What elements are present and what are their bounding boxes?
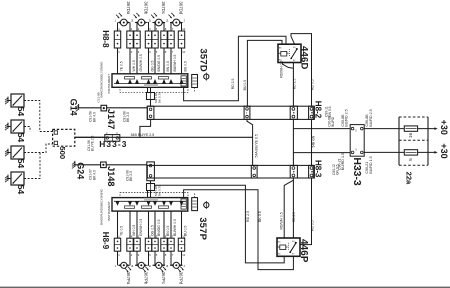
lamp 367Dd — [173, 19, 180, 26]
svg-text:10: 10 — [182, 253, 185, 257]
svg-text:BU/RD 1.5: BU/RD 1.5 — [369, 156, 373, 173]
relay 446D contact — [291, 49, 297, 58]
svg-text:OG 0.5: OG 0.5 — [150, 60, 154, 71]
wire switch 1 to 500 dashed — [24, 101, 53, 132]
svg-text:BAKGRUNDSBELYSNING: BAKGRUNDSBELYSNING — [100, 188, 104, 225]
lamp 367Da — [120, 19, 127, 26]
connector H8-9 pin box 2 — [127, 238, 133, 251]
wire H8-3 end to pin box — [150, 181, 152, 184]
wire 500 to H33-3 — [75, 136, 105, 138]
module 357P body — [112, 198, 188, 212]
svg-text:10: 10 — [182, 234, 185, 238]
connector H8-8 pin box 4 — [145, 31, 151, 48]
link 357D internal — [159, 77, 169, 79]
svg-text:GN/WH 0.5: GN/WH 0.5 — [139, 219, 143, 236]
connector H8-2 pin box 293 — [290, 106, 297, 119]
wire lamp 367Dc right lead — [164, 23, 165, 32]
link 357D internal — [142, 77, 152, 79]
wire J148 to H8-3 — [106, 164, 147, 166]
fuse 5 — [404, 150, 417, 155]
wire lamp 367Pc left lead — [153, 251, 156, 265]
wire RD/WH 0.5 H8-3 to 446P — [284, 180, 293, 238]
wire WH 0.5 from 357P — [129, 211, 131, 238]
connector H8-9 pin box 8 — [178, 238, 184, 251]
wire to H33-3 top — [293, 128, 350, 130]
svg-text:54: 54 — [16, 159, 26, 169]
wire pin box to 357P — [150, 191, 152, 198]
wire RD between bars — [292, 119, 294, 165]
wire RD 0.5 446D pin 30 — [291, 34, 312, 107]
wire BU/WH 0.5 to 357D — [170, 48, 172, 74]
svg-text:BU/WH 0.5: BU/WH 0.5 — [173, 54, 177, 71]
svg-text:54: 54 — [16, 133, 26, 143]
wire lamp 367Pa right lead — [129, 251, 131, 265]
wire lamp 367Da left lead — [117, 23, 119, 32]
switch 54 (4) — [11, 172, 24, 185]
svg-text:RD 2.5: RD 2.5 — [231, 79, 235, 90]
pin arrow 357D — [169, 79, 173, 84]
wire lamp 367Dd left lead — [170, 23, 171, 32]
svg-text:BK 2.5: BK 2.5 — [129, 171, 133, 181]
wire RD 0.5 between bars — [311, 119, 313, 165]
svg-text:BN/OG 0.5: BN/OG 0.5 — [157, 55, 161, 72]
housing 357P dashed — [120, 193, 188, 198]
svg-text:RD 2.5: RD 2.5 — [293, 79, 297, 90]
svg-text:OG 0.5: OG 0.5 — [150, 225, 154, 236]
wire switch 2 to 500 dashed — [24, 127, 30, 132]
fuse box 22a — [399, 116, 428, 118]
lamp 367Pd — [173, 262, 179, 268]
connector H8-3 pin box 293 — [290, 165, 297, 178]
connector H8-2 pin box 247 — [244, 106, 250, 119]
switch 54 (1) — [11, 94, 24, 107]
pin arrow 357P — [153, 201, 157, 206]
svg-text:INSTRUMENT: INSTRUMENT — [107, 74, 111, 94]
lamp 367Pa — [121, 262, 127, 268]
svg-text:RD/WH 0.5: RD/WH 0.5 — [280, 212, 284, 229]
resistor 357P illumination — [192, 198, 198, 211]
svg-text:H8-9: H8-9 — [101, 232, 110, 250]
link 357P internal — [125, 206, 135, 208]
relay 446D coil — [281, 51, 287, 56]
wire lamp 367Dc left lead — [153, 23, 156, 32]
svg-text:RD 0.5: RD 0.5 — [311, 220, 315, 231]
svg-text:WH 0.5: WH 0.5 — [132, 60, 136, 71]
svg-text:BU/RD 2.5: BU/RD 2.5 — [369, 109, 373, 126]
pin arrow 357P — [135, 201, 139, 206]
wire switch 3 to 500 dashed — [24, 144, 53, 153]
pin arrow 357D — [147, 79, 151, 84]
connector H8-3 end box — [147, 162, 155, 181]
wire lamp 367Pd right lead — [182, 251, 183, 265]
svg-text:YE 0.5: YE 0.5 — [119, 61, 123, 71]
svg-text:H8-8: H8-8 — [101, 30, 110, 48]
relay 446P body — [277, 238, 300, 256]
junction J147 — [101, 105, 107, 111]
wire lamp 367Pa left lead — [117, 251, 119, 265]
connector H8-8 pin box 8 — [178, 31, 184, 48]
wire RD 2.5 446D coil feed — [184, 36, 286, 100]
ground G24 — [74, 161, 76, 167]
svg-text:54B GN: 54B GN — [311, 135, 315, 147]
wire H33-3 to fuse 5 — [364, 151, 404, 153]
lamp symbol 357P — [204, 202, 209, 207]
svg-text:367Pa: 367Pa — [126, 272, 131, 285]
connector H8-8 pin box 5 — [152, 31, 158, 48]
wire 357D to pin box — [150, 87, 152, 92]
svg-text:+30: +30 — [439, 120, 449, 135]
svg-text:16: 16 — [408, 133, 414, 139]
svg-text:BU 0.5: BU 0.5 — [183, 61, 187, 71]
connector H8-9 pin box 7 — [168, 238, 174, 251]
connector H8-8 pin box 7 — [168, 31, 174, 48]
wire BU 0.5 to 357D — [181, 48, 183, 74]
ground switch 4 — [7, 175, 9, 181]
svg-text:367Dc: 367Dc — [161, 1, 166, 14]
link 357P internal — [159, 206, 169, 208]
wire G14 to J147 — [79, 107, 101, 109]
wire to H33-3 bottom — [293, 152, 350, 154]
wire H8-2 end to 54A branch — [140, 119, 151, 137]
cell 357P right — [181, 199, 186, 209]
svg-text:22a: 22a — [405, 172, 414, 185]
connector H8-9 pin box 1 — [114, 238, 120, 251]
svg-text:BU/RD 2.5: BU/RD 2.5 — [345, 109, 349, 126]
svg-text:446P: 446P — [298, 239, 309, 263]
svg-text:RD 0.5: RD 0.5 — [292, 212, 296, 222]
svg-text:BU 0.5: BU 0.5 — [243, 80, 247, 90]
wire GN/WH 0.5 from 357P — [136, 211, 138, 238]
wire BN 0.5 from 357P — [163, 211, 165, 238]
svg-text:54A BU/YE 0.5: 54A BU/YE 0.5 — [255, 134, 259, 157]
pin arrow 357P — [147, 201, 151, 206]
svg-text:BN/OG 0.5: BN/OG 0.5 — [157, 219, 161, 236]
connector H8-8 pin box 2 — [127, 31, 133, 48]
wire J147 to H8-2 — [107, 107, 148, 109]
svg-text:BU/RD 1.5: BU/RD 1.5 — [341, 153, 345, 170]
svg-text:367Da: 367Da — [126, 1, 131, 14]
svg-text:357D: 357D — [198, 48, 209, 72]
switch 54 (2) — [11, 120, 24, 133]
svg-text:BK 0.5: BK 0.5 — [258, 211, 262, 222]
wire RD/WH 0.5 from 446D coil — [283, 63, 294, 69]
connector H8-8 pin box 1 — [114, 31, 120, 48]
svg-text:54: 54 — [16, 107, 26, 117]
pin arrow 357P — [169, 201, 173, 206]
cell 357D right — [181, 76, 186, 86]
relay 446D body — [278, 44, 301, 62]
connector H8-9 pin box 5 — [152, 238, 158, 251]
wire RD 0.5 right to 446P — [300, 178, 312, 245]
pin arrow 357D — [128, 79, 132, 84]
pin box below 357D — [147, 93, 155, 100]
wire BU 0.5 from 357P — [181, 211, 183, 238]
svg-text:500: 500 — [58, 146, 67, 159]
pin arrow 357P — [180, 201, 184, 206]
module 357D body — [112, 74, 188, 88]
svg-text:357P: 357P — [197, 217, 208, 240]
svg-text:J148: J148 — [106, 166, 116, 186]
housing 357D dashed — [120, 87, 188, 92]
svg-text:BK 0.75: BK 0.75 — [158, 185, 162, 196]
wire WH 0.5 to 357D — [129, 48, 131, 74]
svg-text:446D: 446D — [298, 46, 309, 70]
resistor 357D illumination — [192, 75, 198, 88]
svg-text:GN/WH 0.5: GN/WH 0.5 — [139, 54, 143, 71]
wire OG 0.5 to 357D — [148, 48, 150, 74]
wire 54A BU/YE between bars — [247, 119, 253, 165]
wire RD 2.5 446D to H8-2 — [292, 63, 294, 107]
ground switch 3 — [7, 149, 9, 155]
pin arrow 357D — [135, 79, 139, 84]
svg-text:10: 10 — [182, 50, 185, 54]
ground switch 1 — [7, 97, 9, 103]
wire lamp 367Pb left lead — [135, 251, 137, 265]
svg-text:367Pd: 367Pd — [179, 272, 184, 285]
pin arrow 357D — [153, 79, 157, 84]
svg-text:GN 0.5: GN 0.5 — [328, 106, 332, 117]
lamp 367Pc — [156, 262, 162, 268]
wire lamp 367Pd left lead — [170, 251, 171, 265]
svg-text:BK 4.0: BK 4.0 — [92, 170, 96, 180]
svg-text:WH 0.5: WH 0.5 — [132, 225, 136, 236]
connector H8-2 end box — [147, 106, 154, 119]
connector H8-3 bar — [147, 165, 313, 178]
wire YE 0.5 to 357D — [117, 48, 119, 74]
svg-text:H33-3: H33-3 — [99, 139, 127, 149]
connector H33-3 inline — [105, 135, 120, 142]
pin arrow 357D — [180, 79, 184, 84]
svg-text:367Pb: 367Pb — [144, 272, 149, 285]
svg-text:RD 0.5: RD 0.5 — [311, 79, 315, 90]
wire lamp 367Pc right lead — [164, 251, 165, 265]
wire RD 0.5 H8-3 to 446P — [292, 178, 294, 238]
svg-text:YE 0.5: YE 0.5 — [119, 226, 123, 236]
svg-text:367Db: 367Db — [144, 1, 149, 14]
wire fuse 5 to +30 — [418, 151, 435, 153]
svg-text:H8-2: H8-2 — [313, 101, 322, 119]
svg-text:C31-0B: C31-0B — [96, 92, 100, 102]
control unit 500 — [53, 129, 75, 146]
fuse 16 — [404, 126, 417, 131]
ground switch 2 — [7, 123, 9, 129]
lamp 367Pb — [138, 262, 144, 268]
svg-text:54: 54 — [16, 185, 26, 195]
wire lamp 367Dd right lead — [182, 23, 183, 32]
wire YE 0.5 from 357P — [117, 211, 119, 238]
connector H8-9 pin box 6 — [161, 238, 167, 251]
link 357D internal — [125, 77, 135, 79]
wire lamp 367Da right lead — [129, 23, 131, 32]
connector H8-9 pin box 3 — [134, 238, 140, 251]
svg-text:BK 4.0: BK 4.0 — [92, 112, 96, 122]
svg-text:54B BU/YE 2.5: 54B BU/YE 2.5 — [131, 133, 155, 137]
pin arrow 357D — [162, 79, 166, 84]
svg-text:RD 2.5: RD 2.5 — [246, 211, 250, 222]
pin arrow 357D — [116, 79, 120, 84]
wire H33-3 to fuse 16 — [364, 128, 404, 130]
wire BN 0.5 to 357D — [163, 48, 165, 74]
link 357P internal — [142, 206, 152, 208]
wire BN/OG 0.5 to 357D — [154, 48, 156, 74]
wire BU/WH 0.5 from 357P — [170, 211, 172, 238]
wire GN/WH 0.5 to 357D — [136, 48, 138, 74]
lamp symbol 357D — [204, 74, 209, 79]
wire fuse 16 to +30 — [418, 128, 435, 130]
wire switch 4 to 500 dashed — [24, 153, 40, 179]
svg-text:BK 0.75: BK 0.75 — [158, 92, 162, 103]
wire lamp 367Pb right lead — [147, 251, 150, 265]
connector H8-8 pin box 6 — [161, 31, 167, 48]
wire OG 0.5 from 357P — [148, 211, 150, 238]
svg-text:10: 10 — [182, 27, 185, 31]
wire 54A branch to H33-3 — [75, 136, 253, 138]
connector H8-3 pin box 254 — [251, 165, 257, 178]
pin arrow 357P — [128, 201, 132, 206]
svg-text:J147: J147 — [106, 109, 116, 129]
pin arrow 357P — [162, 201, 166, 206]
svg-text:BN 0.5: BN 0.5 — [166, 226, 170, 236]
svg-text:367Pc: 367Pc — [161, 272, 166, 285]
relay 446P coil — [280, 245, 286, 250]
connector H8-8 pin box 3 — [134, 31, 140, 48]
wire lamp 367Db right lead — [147, 23, 150, 32]
connector H8-2 pin box 311 — [309, 106, 315, 119]
wire lamp 367Db left lead — [135, 23, 137, 32]
wire BN/OG 0.5 from 357P — [154, 211, 156, 238]
pin box above 357P — [147, 184, 155, 191]
svg-text:BN 0.5: BN 0.5 — [166, 61, 170, 71]
svg-text:5: 5 — [408, 158, 414, 161]
wire G24 to J148 — [75, 164, 101, 166]
connector H8-9 pin box 4 — [145, 238, 151, 251]
svg-text:RD/WH 0.5: RD/WH 0.5 — [279, 61, 283, 78]
svg-text:BAKGRUNDSBELYSNING: BAKGRUNDSBELYSNING — [100, 61, 104, 98]
svg-text:H8-3: H8-3 — [313, 160, 322, 178]
relay 446P contact — [290, 243, 296, 252]
bottom edge — [0, 287, 450, 288]
svg-text:BU/WH 0.5: BU/WH 0.5 — [173, 219, 177, 236]
lamp 367Db — [138, 19, 145, 26]
svg-text:G14: G14 — [68, 99, 78, 116]
ground G14 — [78, 104, 80, 110]
svg-text:367Dd: 367Dd — [179, 1, 184, 14]
connector H8-3 pin box 311 — [309, 165, 315, 178]
svg-text:H33-3: H33-3 — [351, 157, 362, 186]
connector H8-2 bar — [147, 106, 313, 119]
lamp 367Dc — [155, 19, 162, 26]
connector H33-3 right box — [350, 125, 364, 157]
wire RD 2.5 357P to 446P — [155, 185, 285, 263]
svg-text:+30: +30 — [439, 143, 449, 158]
pin arrow 357P — [116, 201, 120, 206]
wire pin box to H8-2 — [150, 100, 152, 107]
wire BK 0.5 357P to 446P — [184, 190, 294, 270]
svg-text:BK 2.5: BK 2.5 — [126, 112, 130, 122]
svg-text:INSTRUMENT: INSTRUMENT — [107, 201, 111, 221]
svg-text:BU/RD: BU/RD — [331, 116, 335, 127]
wire BU 0.5 to 446D — [247, 40, 282, 106]
junction J148 — [101, 162, 107, 168]
switch 54 (3) — [11, 146, 24, 159]
